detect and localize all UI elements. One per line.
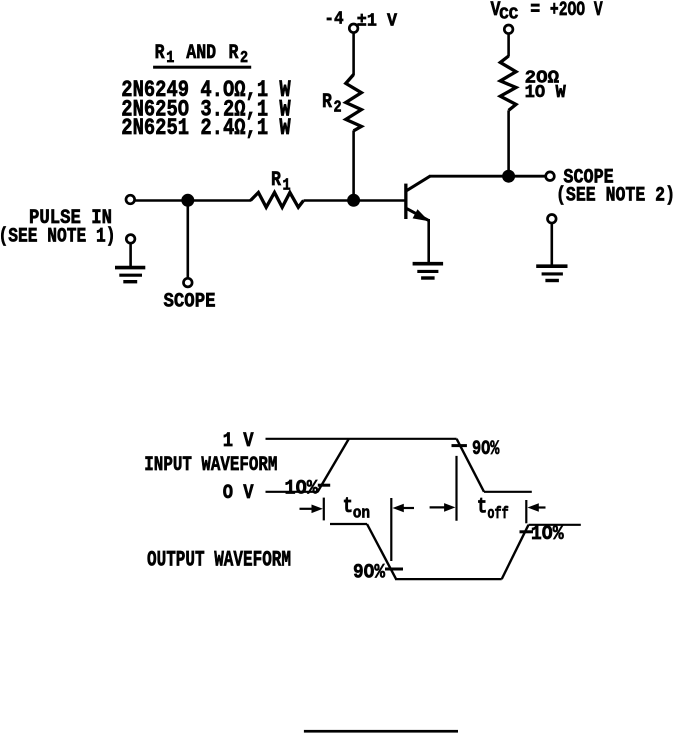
- wire 20 ohm to collector node: [507, 110, 510, 176]
- output waveform low line: [395, 578, 502, 580]
- ground G1 (emitter): [413, 264, 444, 278]
- bottom rule line: [304, 730, 458, 733]
- svg-text:(SEE NOTE 1): (SEE NOTE 1): [0, 224, 116, 248]
- svg-text:CC: CC: [499, 6, 518, 23]
- label -4 +/-1 V: [324, 10, 397, 32]
- terminal T6 (scope right): [546, 172, 555, 181]
- input waveform 0V level line: [266, 491, 319, 493]
- resistor R1: [251, 193, 304, 208]
- svg-text:t: t: [477, 494, 487, 519]
- svg-text:2N6251 2.4Ω,1 W: 2N6251 2.4Ω,1 W: [121, 115, 291, 141]
- ground G2 (right): [536, 266, 567, 280]
- terminal T5 (scope lower): [184, 278, 193, 287]
- tick 10% input: [318, 484, 330, 487]
- ground G3 (input): [115, 268, 145, 282]
- resistor R2: [346, 75, 362, 131]
- svg-text:on: on: [353, 505, 370, 522]
- arrow into t_off left: [430, 503, 456, 512]
- resistor 20 ohm: [500, 56, 516, 110]
- junction J2 (base node): [347, 194, 360, 207]
- terminal T1 (-4V input): [349, 24, 358, 33]
- svg-text:1O%: 1O%: [285, 476, 319, 500]
- junction J3 (collector node): [502, 170, 515, 183]
- measurement line t_off right: [525, 500, 527, 523]
- transistor Q1 emitter arrowhead: [413, 209, 429, 221]
- svg-text:1: 1: [166, 50, 174, 67]
- svg-text:(SEE NOTE 2): (SEE NOTE 2): [556, 183, 673, 207]
- terminal T7 (right ground terminal): [548, 215, 557, 224]
- svg-text:R: R: [228, 40, 239, 64]
- svg-text:±1 V: ±1 V: [357, 12, 398, 32]
- svg-text:off: off: [487, 506, 508, 523]
- transistor Q1 collector lead: [407, 176, 431, 191]
- terminal T2 (VCC): [504, 25, 513, 34]
- terminal T3 (pulse in): [126, 195, 135, 204]
- measurement line t_on left: [323, 498, 325, 521]
- wire R1 to base: [304, 199, 405, 202]
- wire emitter to ground: [427, 219, 430, 262]
- arrow into t_off right: [528, 503, 546, 512]
- svg-text:=: =: [530, 0, 540, 22]
- label R1: [271, 167, 291, 195]
- wire T3 to R1: [135, 199, 251, 202]
- label t_on: [343, 494, 370, 523]
- output waveform falling edge: [367, 524, 396, 579]
- label R2: [322, 89, 342, 117]
- svg-text:1O W: 1O W: [525, 83, 567, 103]
- wire R2 to base node: [352, 131, 355, 201]
- tick 10% output: [520, 530, 534, 533]
- svg-text:2: 2: [334, 100, 342, 117]
- output waveform top left line: [330, 523, 367, 525]
- input waveform falling edge: [457, 439, 484, 492]
- svg-text:-4: -4: [324, 10, 343, 30]
- svg-text:R: R: [322, 89, 333, 113]
- note header R1 AND R2: [155, 40, 249, 67]
- svg-text:+2OO V: +2OO V: [550, 0, 603, 22]
- label VCC = +200 V: [491, 0, 604, 24]
- svg-text:9O%: 9O%: [353, 560, 386, 584]
- svg-text:9O%: 9O%: [472, 437, 500, 461]
- tick 90% output: [385, 568, 403, 571]
- measurement line t_off left: [455, 456, 457, 521]
- svg-text:1: 1: [283, 178, 291, 195]
- output waveform top right line: [529, 524, 581, 526]
- svg-text:AND: AND: [186, 40, 216, 64]
- wire T4 to ground: [129, 243, 132, 266]
- input waveform 1V level line: [266, 438, 457, 440]
- svg-text:t: t: [343, 494, 353, 519]
- svg-text:SCOPE: SCOPE: [164, 289, 216, 313]
- note header underline: [153, 66, 251, 69]
- wire T1 to R2: [352, 33, 355, 75]
- arrow into t_on left: [300, 505, 323, 514]
- transistor Q1 base bar: [404, 184, 407, 219]
- svg-text:R: R: [155, 40, 166, 64]
- svg-text:O V: O V: [223, 480, 255, 504]
- svg-text:R: R: [271, 167, 282, 191]
- output waveform rising edge: [502, 525, 529, 579]
- svg-text:INPUT WAVEFORM: INPUT WAVEFORM: [144, 452, 277, 476]
- arrow into t_on right: [393, 504, 415, 513]
- junction J1 (pulse-in node): [181, 194, 194, 207]
- svg-text:1O%: 1O%: [531, 521, 564, 545]
- wire J1 to scope terminal: [187, 201, 190, 279]
- svg-text:1 V: 1 V: [223, 428, 255, 452]
- svg-text:OUTPUT WAVEFORM: OUTPUT WAVEFORM: [147, 548, 291, 573]
- terminal T4 (input ground terminal): [126, 235, 135, 244]
- wire T2 to 20 ohm resistor: [507, 34, 510, 57]
- wire collector to node J3 and scope: [429, 175, 546, 178]
- transistor Q1 emitter lead: [407, 208, 429, 220]
- svg-text:2: 2: [240, 50, 248, 67]
- label t_off: [477, 494, 509, 523]
- wire T7 to ground: [550, 223, 553, 264]
- measurement line t_on right: [390, 498, 392, 561]
- tick 90% input: [452, 444, 467, 447]
- input waveform low right line: [484, 491, 532, 493]
- input waveform rising edge: [318, 439, 350, 493]
